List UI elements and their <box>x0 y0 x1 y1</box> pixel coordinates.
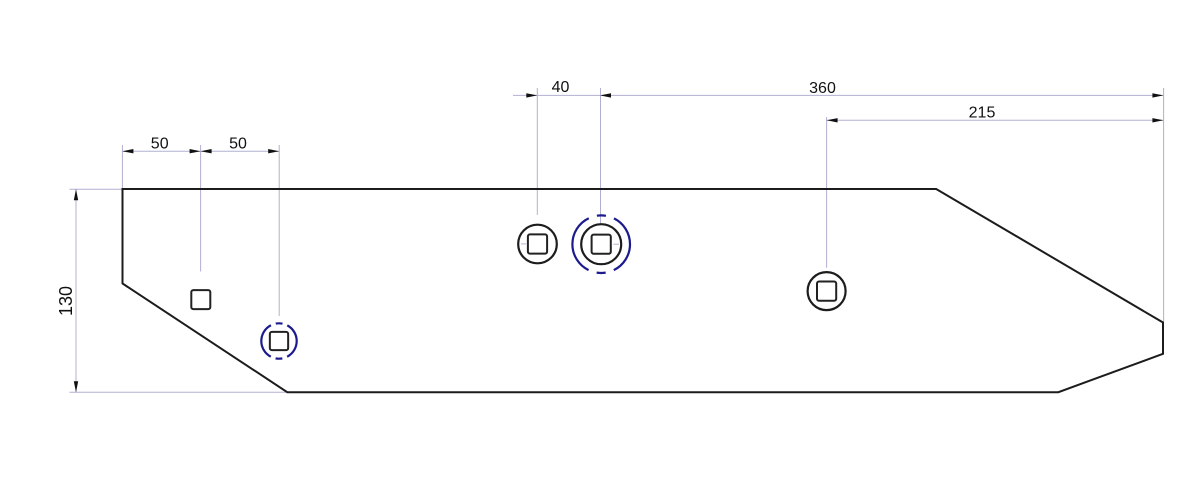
arrow left end 215 <box>827 118 838 122</box>
svg-text:130: 130 <box>56 286 76 316</box>
part outline (blade profile) <box>123 189 1164 392</box>
dimension line 50+50 <box>122 150 279 152</box>
extension line hole H3 vertical <box>536 88 538 215</box>
hole H4 inner circle <box>581 224 621 264</box>
extension line right tip vertical <box>1163 88 1165 323</box>
arrow right of second 50 <box>268 149 279 153</box>
hole H5 circle <box>808 272 846 310</box>
svg-text:40: 40 <box>552 79 570 96</box>
hole H3 circle <box>518 225 557 264</box>
extension line hole H4 vertical <box>600 88 602 232</box>
center tick right of hole H4 <box>614 243 620 245</box>
hole H2 dashed circle <box>261 323 296 358</box>
arrow pointing right at right tip 360 <box>1152 93 1163 97</box>
extension line bottom edge horizontal for 130-dim <box>70 391 288 393</box>
dimension line 130 vertical <box>75 189 77 392</box>
arrow left of first 50 <box>122 149 133 153</box>
arrow right end 215 <box>1152 118 1163 122</box>
hole H3 square <box>528 234 547 253</box>
hole H4 outer dashed circle <box>572 215 630 273</box>
arrow pointing right at H3 ext <box>526 93 537 97</box>
svg-text:360: 360 <box>809 80 836 97</box>
dimension line 215 <box>827 119 1164 121</box>
dimension line 40 and 360 <box>513 94 1163 96</box>
hole H1 square <box>191 290 210 309</box>
hole H4 square <box>592 235 611 254</box>
svg-text:50: 50 <box>229 136 247 153</box>
hole H5 square <box>817 282 836 301</box>
arrow left of second 50 <box>201 149 212 153</box>
extension line hole H2 vertical <box>278 145 280 316</box>
extension line hole H5 vertical <box>826 117 828 268</box>
arrow bottom end 130 <box>74 381 78 392</box>
arrow right of first 50 <box>190 149 201 153</box>
arrow top end 130 <box>74 189 78 200</box>
extension line top-left corner horizontal for 130-dim <box>70 188 123 190</box>
hole H2 square <box>270 332 288 350</box>
center tick left of hole H3 <box>521 243 526 245</box>
arrow pointing left at H4 ext <box>600 93 611 97</box>
extension line hole H1 vertical <box>200 145 202 272</box>
svg-text:215: 215 <box>969 105 996 122</box>
svg-text:50: 50 <box>151 136 169 153</box>
extension line from top-left corner up to 50-dim <box>121 145 123 188</box>
